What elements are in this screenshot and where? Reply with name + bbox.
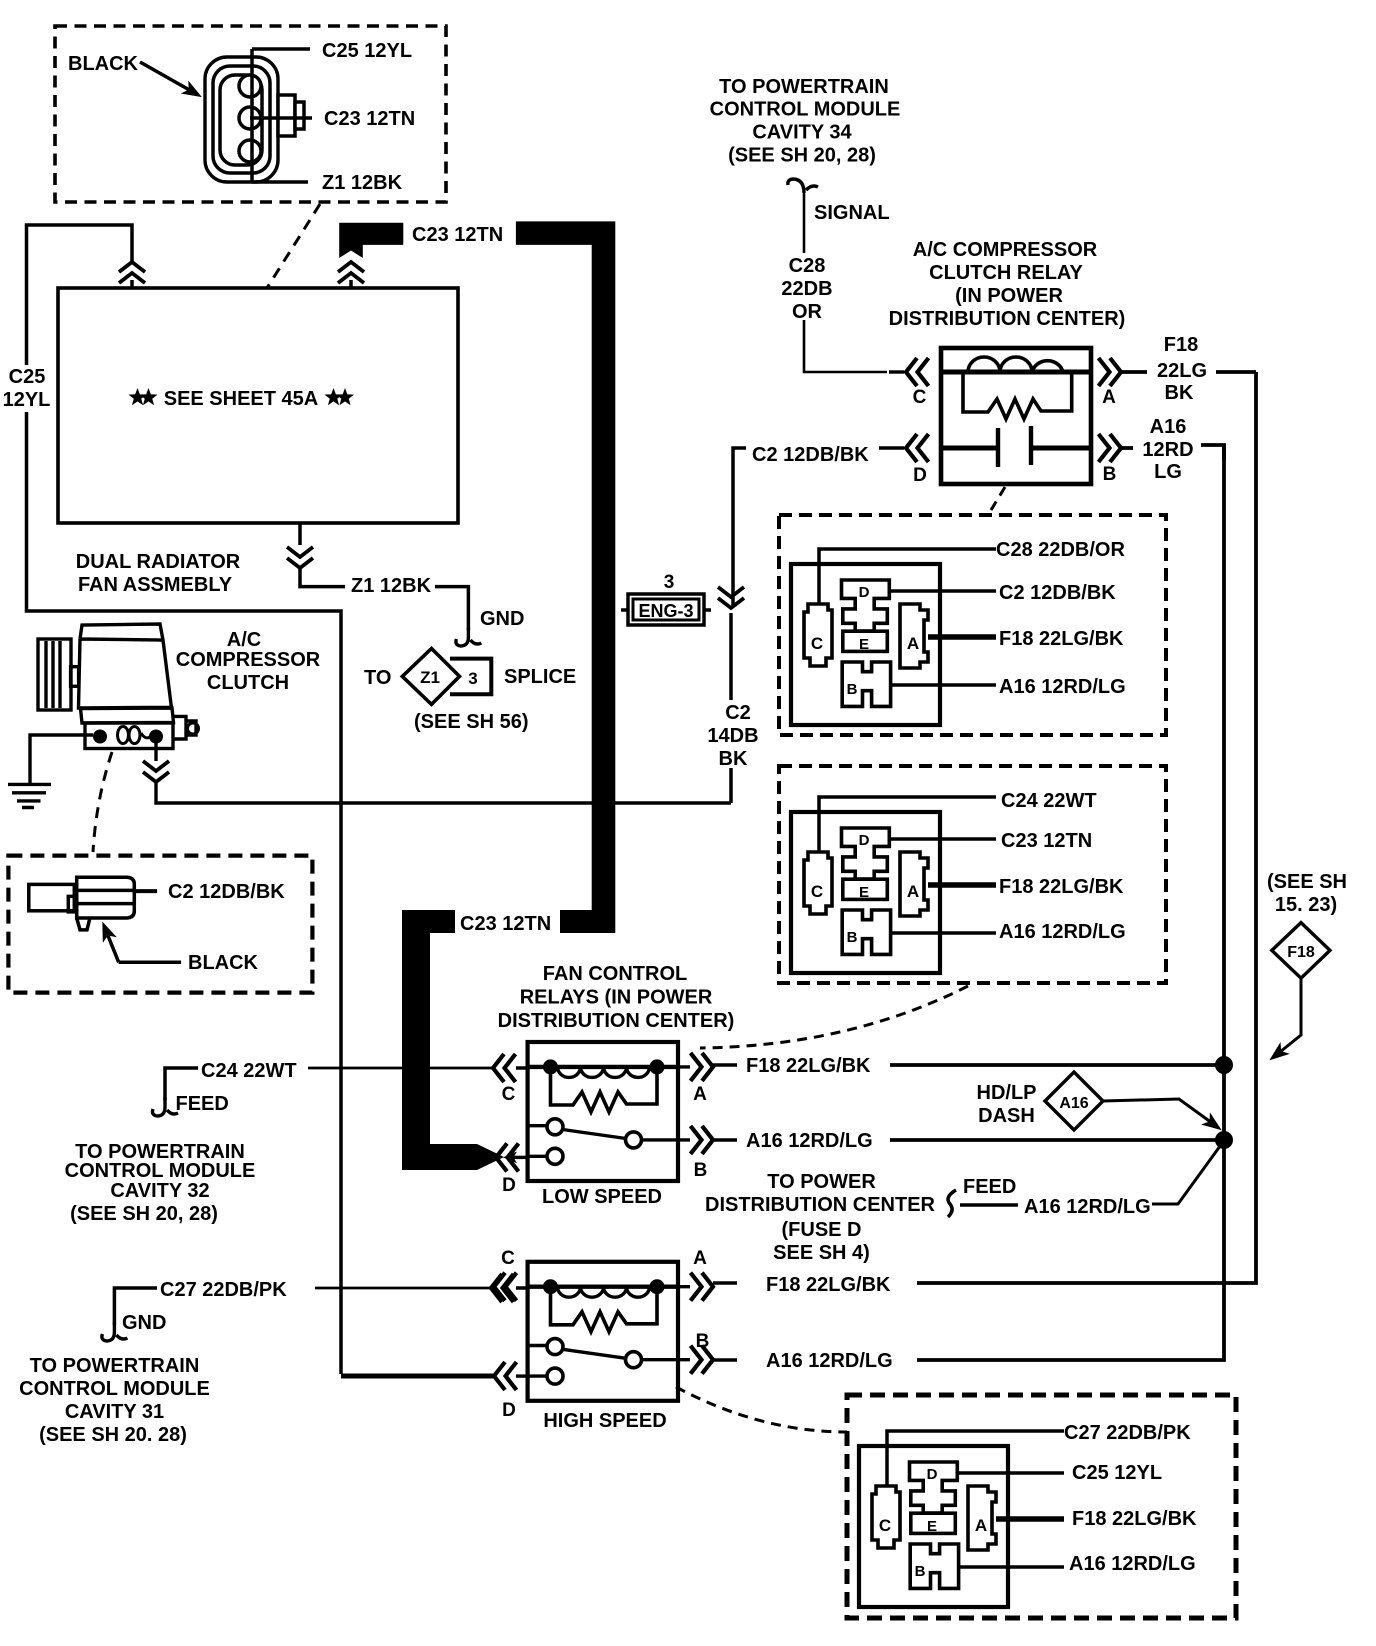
svg-text:(FUSE D: (FUSE D <box>782 1219 862 1241</box>
svg-text:(SEE SH 56): (SEE SH 56) <box>414 711 528 733</box>
svg-text:SEE SH 4): SEE SH 4) <box>773 1242 870 1264</box>
svg-text:B: B <box>694 1160 708 1181</box>
svg-text:C2 12DB/BK: C2 12DB/BK <box>752 444 869 466</box>
svg-text:A16 12RD/LG: A16 12RD/LG <box>1024 1196 1151 1218</box>
svg-text:22DB: 22DB <box>781 278 832 300</box>
svg-text:A/C: A/C <box>227 629 261 651</box>
svg-text:C24 22WT: C24 22WT <box>1001 790 1097 812</box>
svg-text:A: A <box>693 1248 707 1269</box>
svg-text:GND: GND <box>480 608 524 630</box>
svg-text:A16: A16 <box>1059 1095 1088 1112</box>
svg-text:C23 12TN: C23 12TN <box>1001 830 1092 852</box>
svg-text:12RD: 12RD <box>1142 439 1193 461</box>
svg-text:DISTRIBUTION CENTER): DISTRIBUTION CENTER) <box>889 308 1126 330</box>
svg-text:A16: A16 <box>1150 416 1187 438</box>
svg-text:C23 12TN: C23 12TN <box>412 224 503 246</box>
svg-text:DISTRIBUTION CENTER): DISTRIBUTION CENTER) <box>498 1010 735 1032</box>
svg-text:C25 12YL: C25 12YL <box>322 40 412 62</box>
svg-text:(IN POWER: (IN POWER <box>955 285 1063 307</box>
svg-text:RELAYS (IN POWER: RELAYS (IN POWER <box>520 987 713 1009</box>
svg-text:A16 12RD/LG: A16 12RD/LG <box>746 1130 873 1152</box>
svg-text:CONTROL MODULE: CONTROL MODULE <box>65 1160 256 1182</box>
svg-text:C23 12TN: C23 12TN <box>324 108 415 130</box>
svg-text:SPLICE: SPLICE <box>504 666 576 688</box>
svg-text:HIGH SPEED: HIGH SPEED <box>543 1410 666 1432</box>
svg-text:ENG-3: ENG-3 <box>638 601 693 621</box>
svg-text:FEED: FEED <box>963 1176 1016 1198</box>
svg-text:TO: TO <box>364 667 391 689</box>
svg-text:CAVITY 31: CAVITY 31 <box>65 1401 164 1423</box>
svg-text:C2: C2 <box>725 702 751 724</box>
svg-text:F18 22LG/BK: F18 22LG/BK <box>1072 1508 1197 1530</box>
svg-text:C24 22WT: C24 22WT <box>201 1060 297 1082</box>
svg-text:FAN CONTROL: FAN CONTROL <box>543 963 687 985</box>
svg-text:15. 23): 15. 23) <box>1275 894 1337 916</box>
svg-text:CAVITY 34: CAVITY 34 <box>752 122 852 144</box>
svg-text:TO POWERTRAIN: TO POWERTRAIN <box>719 76 889 98</box>
svg-text:LOW SPEED: LOW SPEED <box>542 1186 662 1208</box>
svg-text:C25: C25 <box>9 366 46 388</box>
svg-text:B: B <box>1103 464 1117 485</box>
svg-text:C2 12DB/BK: C2 12DB/BK <box>168 881 285 903</box>
svg-text:3: 3 <box>664 572 675 593</box>
svg-text:SIGNAL: SIGNAL <box>814 202 890 224</box>
svg-text:CAVITY 32: CAVITY 32 <box>110 1180 209 1202</box>
svg-text:F18 22LG/BK: F18 22LG/BK <box>999 628 1124 650</box>
svg-text:BLACK: BLACK <box>68 53 139 75</box>
svg-text:BK: BK <box>719 748 748 770</box>
svg-text:SEE SHEET 45A: SEE SHEET 45A <box>164 388 319 410</box>
svg-text:COMPRESSOR: COMPRESSOR <box>176 649 321 671</box>
svg-text:D: D <box>502 1175 516 1196</box>
svg-text:GND: GND <box>122 1312 166 1334</box>
svg-text:A16 12RD/LG: A16 12RD/LG <box>999 676 1126 698</box>
svg-text:C23 12TN: C23 12TN <box>460 913 551 935</box>
svg-text:C28 22DB/OR: C28 22DB/OR <box>996 539 1125 561</box>
svg-text:LG: LG <box>1154 461 1182 483</box>
svg-text:A16 12RD/LG: A16 12RD/LG <box>999 921 1126 943</box>
svg-text:TO POWER: TO POWER <box>767 1171 876 1193</box>
svg-text:14DB: 14DB <box>707 725 758 747</box>
svg-text:C28: C28 <box>789 255 826 277</box>
svg-text:CONTROL MODULE: CONTROL MODULE <box>19 1378 210 1400</box>
svg-text:D: D <box>913 465 927 486</box>
svg-text:Z1: Z1 <box>420 668 440 687</box>
svg-text:A: A <box>693 1084 707 1105</box>
svg-text:F18 22LG/BK: F18 22LG/BK <box>766 1274 891 1296</box>
svg-text:F18 22LG/BK: F18 22LG/BK <box>746 1055 871 1077</box>
svg-text:F18: F18 <box>1164 334 1198 356</box>
svg-text:(SEE SH 20, 28): (SEE SH 20, 28) <box>70 1203 218 1225</box>
svg-text:A: A <box>1102 387 1116 408</box>
svg-text:F18: F18 <box>1287 944 1315 961</box>
svg-text:CLUTCH: CLUTCH <box>207 672 289 694</box>
svg-text:F18 22LG/BK: F18 22LG/BK <box>999 876 1124 898</box>
svg-text:3: 3 <box>468 669 477 688</box>
svg-text:HD/LP: HD/LP <box>977 1082 1037 1104</box>
svg-text:Z1 12BK: Z1 12BK <box>322 172 403 194</box>
svg-text:FAN ASSMEBLY: FAN ASSMEBLY <box>78 574 233 596</box>
svg-text:CONTROL MODULE: CONTROL MODULE <box>710 99 901 121</box>
svg-text:FEED: FEED <box>176 1093 229 1115</box>
svg-text:TO POWERTRAIN: TO POWERTRAIN <box>30 1355 200 1377</box>
svg-text:D: D <box>502 1400 516 1421</box>
svg-text:C2 12DB/BK: C2 12DB/BK <box>999 582 1116 604</box>
svg-text:C: C <box>502 1084 516 1105</box>
svg-text:C: C <box>501 1248 515 1269</box>
svg-text:(SEE SH: (SEE SH <box>1267 871 1347 893</box>
svg-text:(SEE SH 20. 28): (SEE SH 20. 28) <box>39 1424 187 1446</box>
svg-text:DISTRIBUTION CENTER: DISTRIBUTION CENTER <box>705 1194 936 1216</box>
svg-text:BLACK: BLACK <box>188 952 259 974</box>
svg-text:CLUTCH RELAY: CLUTCH RELAY <box>929 262 1083 284</box>
svg-text:DUAL RADIATOR: DUAL RADIATOR <box>76 551 241 573</box>
svg-text:A/C COMPRESSOR: A/C COMPRESSOR <box>913 239 1098 261</box>
svg-text:DASH: DASH <box>978 1105 1035 1127</box>
svg-text:OR: OR <box>792 301 823 323</box>
svg-text:22LG: 22LG <box>1157 360 1207 382</box>
svg-text:C27 22DB/PK: C27 22DB/PK <box>160 1279 287 1301</box>
svg-text:Z1 12BK: Z1 12BK <box>351 575 432 597</box>
svg-text:(SEE SH 20, 28): (SEE SH 20, 28) <box>728 145 876 167</box>
svg-text:A16 12RD/LG: A16 12RD/LG <box>766 1350 893 1372</box>
svg-text:C27 22DB/PK: C27 22DB/PK <box>1064 1422 1191 1444</box>
svg-text:A16 12RD/LG: A16 12RD/LG <box>1069 1553 1196 1575</box>
svg-text:12YL: 12YL <box>3 389 51 411</box>
svg-text:BK: BK <box>1165 382 1194 404</box>
svg-text:C25 12YL: C25 12YL <box>1072 1462 1162 1484</box>
svg-text:C: C <box>913 387 927 408</box>
